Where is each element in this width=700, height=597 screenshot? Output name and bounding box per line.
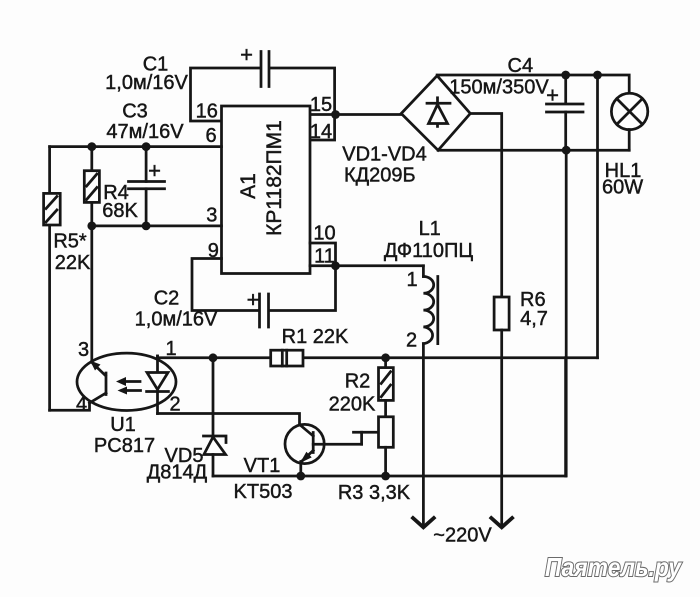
svg-text:+: + — [240, 42, 253, 67]
svg-text:15: 15 — [310, 94, 332, 116]
svg-text:R3 3,3K: R3 3,3K — [338, 482, 411, 504]
svg-text:2: 2 — [169, 394, 180, 416]
svg-text:R1 22K: R1 22K — [282, 326, 349, 348]
svg-text:R5*: R5* — [53, 231, 87, 253]
svg-text:47м/16V: 47м/16V — [106, 121, 184, 143]
svg-text:R2: R2 — [345, 371, 371, 393]
svg-text:+: + — [148, 158, 161, 183]
svg-text:Д814Д: Д814Д — [147, 462, 208, 484]
svg-text:U1: U1 — [110, 414, 136, 436]
svg-text:4,7: 4,7 — [520, 308, 548, 330]
svg-text:1,0м/16V: 1,0м/16V — [105, 72, 188, 94]
svg-text:А1: А1 — [237, 173, 260, 199]
svg-text:VT1: VT1 — [244, 455, 281, 477]
svg-text:C3: C3 — [122, 101, 148, 123]
svg-text:VD1-VD4: VD1-VD4 — [342, 144, 426, 166]
svg-text:C2: C2 — [154, 288, 180, 310]
svg-text:60W: 60W — [602, 177, 643, 199]
svg-text:+: + — [546, 83, 559, 108]
svg-text:10: 10 — [313, 223, 335, 245]
svg-text:КД209Б: КД209Б — [344, 165, 416, 187]
svg-text:3: 3 — [206, 205, 217, 227]
svg-text:1: 1 — [165, 338, 176, 360]
svg-text:ДФ110ПЦ: ДФ110ПЦ — [384, 240, 474, 262]
svg-text:9: 9 — [208, 240, 219, 262]
svg-text:1,0м/16V: 1,0м/16V — [135, 309, 218, 331]
svg-text:2: 2 — [406, 330, 417, 352]
svg-text:PC817: PC817 — [94, 435, 155, 457]
svg-text:L1: L1 — [419, 218, 441, 240]
svg-text:КР1182ПМ1: КР1182ПМ1 — [263, 120, 286, 236]
svg-text:C4: C4 — [508, 55, 534, 77]
svg-text:14: 14 — [310, 121, 332, 143]
svg-text:22K: 22K — [55, 252, 91, 274]
svg-text:3: 3 — [78, 339, 89, 361]
svg-text:Паятель.ру: Паятель.ру — [545, 552, 682, 582]
svg-text:220K: 220K — [329, 394, 376, 416]
svg-text:~220V: ~220V — [433, 525, 492, 547]
svg-text:150м/350V: 150м/350V — [449, 77, 549, 99]
svg-text:4: 4 — [76, 394, 87, 416]
svg-text:6: 6 — [205, 125, 216, 147]
svg-text:1: 1 — [406, 269, 417, 291]
svg-text:+: + — [247, 287, 260, 312]
svg-text:68K: 68K — [102, 200, 138, 222]
svg-text:11: 11 — [314, 246, 335, 268]
svg-text:16: 16 — [196, 101, 218, 123]
svg-text:KT503: KT503 — [234, 481, 293, 503]
